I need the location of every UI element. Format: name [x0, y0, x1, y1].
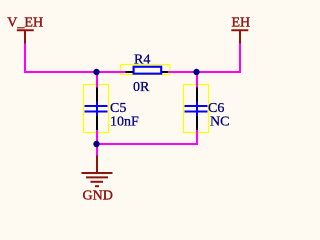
capacitor C5	[84, 85, 109, 133]
svg-text:R4: R4	[134, 53, 150, 68]
ground	[82, 156, 113, 187]
junction node right bus	[193, 69, 199, 75]
junction node left bus	[93, 69, 99, 75]
wire: C6 top stub	[196, 72, 198, 88]
svg-text:EH: EH	[232, 16, 251, 31]
wire: GND magenta stub	[96, 144, 98, 156]
svg-text:GND: GND	[83, 189, 113, 204]
wire: resistor pin to EH riser	[168, 43, 240, 72]
svg-text:NC: NC	[210, 115, 229, 130]
svg-text:0R: 0R	[133, 80, 150, 95]
wire: C5 bottom stub	[96, 130, 98, 144]
wire: bottom bus to C6	[97, 130, 197, 144]
svg-text:V_EH: V_EH	[7, 16, 43, 31]
power port V_EH	[17, 30, 34, 43]
power port EH	[231, 30, 248, 43]
capacitor C6	[184, 85, 209, 133]
junction node bottom bus	[93, 141, 99, 147]
resistor R4	[121, 65, 171, 75]
wire: C5 top stub	[96, 72, 98, 88]
wire: V_EH riser and left bus to resistor pin	[25, 43, 126, 72]
svg-text:10nF: 10nF	[110, 115, 139, 130]
